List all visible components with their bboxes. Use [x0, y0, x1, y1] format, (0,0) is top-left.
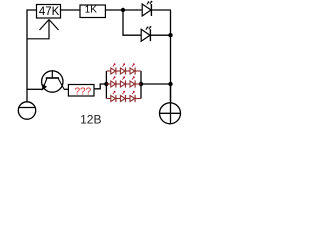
LED D2	[116, 63, 126, 74]
wire	[123, 10, 141, 35]
wire	[94, 84, 106, 89]
LED D4	[106, 76, 116, 87]
wire	[61, 9, 81, 11]
LED D7	[106, 91, 116, 102]
LED D3	[126, 63, 142, 74]
wire	[141, 83, 171, 85]
node E	[168, 82, 172, 86]
wire	[27, 10, 37, 102]
wire	[151, 9, 171, 11]
microphone	[18, 102, 35, 119]
node D	[139, 82, 143, 86]
LED D8	[116, 91, 126, 102]
svg-text:12В: 12В	[80, 113, 101, 127]
wiper arrow	[27, 20, 59, 39]
wire	[170, 10, 172, 103]
LED VD1	[142, 1, 152, 16]
lamp	[160, 84, 181, 124]
transistor Q1	[42, 71, 64, 92]
mystery box ???	[68, 85, 94, 98]
wire	[27, 88, 43, 90]
LED D5	[116, 76, 126, 87]
svg-text:???: ???	[74, 87, 91, 98]
node C	[104, 82, 108, 86]
wire	[105, 9, 141, 11]
node A	[121, 8, 125, 12]
svg-text:47K: 47K	[39, 6, 60, 18]
LED D6	[126, 76, 142, 87]
LED matrix frame	[106, 71, 141, 99]
wire	[150, 34, 171, 36]
LED D1	[106, 63, 116, 74]
wire	[64, 88, 69, 90]
node B	[168, 33, 172, 37]
resistor R2 1K	[80, 5, 105, 18]
LED D9	[126, 91, 142, 102]
svg-text:1K: 1K	[85, 5, 98, 16]
potentiometer R1 47K	[37, 5, 61, 19]
LED VD2	[141, 26, 151, 41]
